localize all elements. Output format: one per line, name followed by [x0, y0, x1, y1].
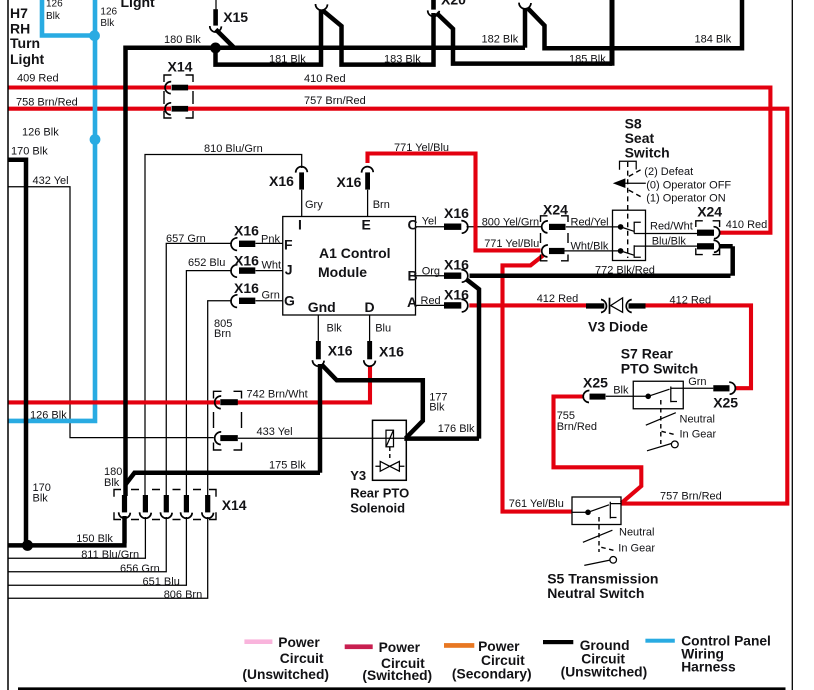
wire 412 Red left [469, 303, 586, 307]
svg-text:412 Red: 412 Red [670, 294, 712, 306]
svg-text:Rear PTO: Rear PTO [350, 486, 409, 501]
svg-text:A1 Control: A1 Control [319, 245, 391, 261]
S5 blade [588, 505, 609, 513]
wire 183 Blk with connector diagonals [323, 11, 434, 65]
S5 in-gear circle arm [610, 557, 617, 564]
diode V3 right pin arc and bar [626, 300, 631, 313]
S8 blade 2 [621, 251, 634, 255]
connector X16 pin G [231, 295, 238, 308]
svg-text:X25: X25 [713, 394, 738, 410]
legend swatch black Ground Circuit (Unswitched) [543, 640, 573, 644]
wire 150 Blk [8, 516, 127, 545]
svg-text:Red/Wht: Red/Wht [650, 220, 693, 232]
S5 in-gear dashes [601, 547, 613, 550]
svg-text:(Secondary): (Secondary) [452, 667, 532, 682]
legend swatch crimson Power Circuit (Switched) [345, 644, 373, 649]
svg-text:656 Grn: 656 Grn [120, 563, 160, 575]
connector X14 bottom pin 4 [184, 495, 189, 512]
svg-text:Power: Power [278, 635, 320, 650]
svg-text:Wht/Blk: Wht/Blk [571, 240, 609, 252]
wire 412 Red right [645, 305, 751, 388]
svg-text:175 Blk: 175 Blk [269, 460, 306, 472]
wire Gnd vertical to 175 Blk [318, 364, 323, 473]
svg-text:Power: Power [478, 639, 520, 654]
svg-text:Light: Light [10, 51, 45, 67]
legend swatch cyan Control Panel Wiring Harness [645, 639, 674, 643]
wire 185 Blk with X20 diagonal [437, 13, 613, 64]
wire 805 Brn / 806 net vertical [208, 301, 232, 496]
svg-text:811 Blu/Grn: 811 Blu/Grn [81, 549, 139, 561]
svg-text:D: D [365, 299, 375, 315]
svg-text:758 Brn/Red: 758 Brn/Red [16, 97, 78, 109]
wire 771 Yel/Blu upper [368, 154, 541, 251]
svg-text:183 Blk: 183 Blk [384, 53, 421, 65]
connector X25 left pin [583, 390, 589, 402]
wire 181 Blk U [216, 10, 322, 65]
wire Gnd pin lead [317, 315, 319, 342]
svg-text:180: 180 [104, 466, 122, 478]
svg-text:X20: X20 [441, 0, 466, 8]
connector X14 bottom pin 5 [205, 495, 210, 512]
svg-text:Org: Org [422, 265, 440, 277]
LAYER: dashed connector boxes [114, 75, 720, 520]
connector X24 right dashed box [696, 221, 720, 255]
svg-text:Harness: Harness [681, 660, 736, 675]
svg-text:X14: X14 [168, 58, 193, 74]
diode V3 cathode bar [609, 298, 611, 314]
connector X16 pin D [367, 341, 372, 359]
wire X15 diagonal [216, 30, 234, 48]
page border right [791, 0, 793, 690]
svg-text:X16: X16 [269, 173, 294, 189]
svg-text:S7 Rear: S7 Rear [621, 346, 674, 362]
wire pin A lead [416, 304, 445, 306]
svg-text:Neutral: Neutral [680, 413, 715, 425]
wire D pin lead [369, 315, 371, 342]
svg-text:Y3: Y3 [350, 468, 366, 483]
S7 in-gear dashes [662, 431, 676, 435]
svg-text:X16: X16 [444, 257, 469, 273]
junction cyan dot B [90, 134, 101, 145]
wire 757 Brn/Red [188, 109, 787, 504]
svg-text:184 Blk: 184 Blk [695, 33, 732, 45]
svg-text:657 Grn: 657 Grn [166, 233, 206, 245]
wire 742 Brn/Wht [8, 400, 220, 404]
svg-text:X16: X16 [379, 344, 404, 360]
svg-text:E: E [362, 217, 371, 233]
svg-text:Yel: Yel [422, 215, 437, 227]
wire control panel harness branch 126 Blk [42, 0, 95, 36]
S8 defeat dashed diagonal [629, 168, 644, 176]
wire 176 Blk from pin B [404, 280, 479, 439]
S7 pole dot [645, 394, 651, 400]
S8 blade 1 [621, 227, 634, 231]
connector X16 pin F [231, 238, 238, 251]
svg-text:Pnk: Pnk [261, 233, 280, 245]
wire pin G lead to module [256, 300, 283, 302]
S8 contact 1 [634, 222, 641, 233]
LAYER: component internals and symbols [283, 161, 684, 565]
svg-text:Power: Power [379, 640, 421, 655]
connector X14 top pin 1 [165, 82, 171, 94]
svg-text:X24: X24 [697, 204, 722, 220]
svg-text:410 Red: 410 Red [304, 73, 346, 85]
wire 800 Yel/Grn [467, 226, 542, 228]
svg-text:I: I [298, 217, 302, 233]
connector X14 bottom pin 1 [122, 495, 127, 512]
wire 409 Red / 410 Red [8, 85, 171, 89]
wire Red/Wht [634, 233, 697, 235]
connector X25 right pin [713, 385, 729, 391]
op-amp n/a : A1 Control Module box [283, 217, 416, 316]
svg-text:X25: X25 [583, 374, 608, 390]
svg-text:PTO Switch: PTO Switch [621, 361, 699, 377]
svg-text:Turn: Turn [10, 35, 40, 51]
wire X21 vertical [523, 9, 528, 48]
svg-text:(Unswitched): (Unswitched) [242, 667, 329, 682]
wire 755 Brn/Red [554, 397, 642, 504]
connector X14 bottom pin 3 [164, 495, 169, 512]
svg-text:X16: X16 [234, 280, 259, 296]
svg-text:In Gear: In Gear [680, 428, 717, 440]
connector X24 right pin 1 [697, 230, 714, 236]
svg-text:772 Blk/Red: 772 Blk/Red [595, 264, 655, 276]
S7 blade [648, 389, 669, 396]
wire 652 Blu / 651 net vertical [186, 271, 231, 496]
svg-text:X16: X16 [234, 223, 259, 239]
connector X16 pin A [444, 302, 461, 308]
svg-text:Brn: Brn [214, 328, 231, 340]
svg-text:Neutral: Neutral [619, 527, 654, 539]
svg-text:Blk: Blk [613, 385, 629, 397]
wire page-edge vertical node [610, 0, 615, 66]
junction 150/170 dot [22, 540, 33, 551]
legend swatch pink Power Circuit (Unswitched) [244, 639, 272, 644]
svg-text:Red/Yel: Red/Yel [571, 217, 609, 229]
svg-text:176 Blk: 176 Blk [438, 423, 475, 435]
svg-text:X15: X15 [223, 9, 248, 25]
S8 ON dashed diagonal [629, 190, 644, 198]
svg-text:433 Yel: 433 Yel [257, 426, 293, 438]
LAYER: connector pins [119, 0, 736, 518]
S5 actuator dashed [598, 517, 600, 552]
page border left [7, 0, 9, 690]
wire pin C lead [416, 226, 445, 228]
wire Blk S7 [606, 395, 648, 397]
wire 656 Grn bottom [8, 517, 166, 572]
svg-text:Blk: Blk [104, 477, 120, 489]
wire pin I lead to module [301, 190, 303, 217]
S7 actuator dashed [660, 400, 662, 444]
connector X16 pin C [444, 224, 461, 230]
S7 in-gear circle arm [671, 441, 678, 448]
svg-text:H7: H7 [10, 5, 28, 21]
connector X15 pin [215, 0, 217, 9]
connector X14 left dashed box [214, 391, 242, 450]
svg-text:(0) Operator OFF: (0) Operator OFF [646, 179, 731, 191]
svg-text:806 Brn: 806 Brn [164, 589, 203, 601]
svg-text:126: 126 [46, 0, 63, 10]
svg-text:X16: X16 [444, 287, 469, 303]
wire Grn S7 [671, 387, 714, 389]
svg-text:757 Brn/Red: 757 Brn/Red [660, 491, 722, 503]
wire pin E lead to module [367, 190, 369, 217]
svg-text:(Switched): (Switched) [362, 668, 432, 683]
wire 177 Blk [322, 365, 423, 439]
diode V3 triangle [611, 298, 623, 312]
wire 184 Blk with X21 diagonal [528, 0, 742, 48]
connector X24 left pin 2 [542, 245, 548, 257]
svg-text:409 Red: 409 Red [17, 73, 59, 85]
svg-text:X16: X16 [234, 253, 259, 269]
svg-text:X16: X16 [328, 343, 353, 359]
wire 811 Blu/Grn bottom [8, 517, 145, 558]
svg-text:432 Yel: 432 Yel [33, 175, 69, 187]
svg-text:A: A [407, 294, 417, 310]
junction X15 dot [210, 43, 221, 54]
svg-text:(Unswitched): (Unswitched) [561, 665, 648, 680]
Y3 coil [386, 430, 394, 447]
svg-text:Solenoid: Solenoid [350, 501, 405, 516]
connector X14 bottom pin 2 [143, 495, 148, 512]
wire Blu/Blk [634, 245, 697, 247]
svg-text:C: C [408, 217, 418, 233]
svg-text:V3 Diode: V3 Diode [588, 319, 648, 335]
wire Wht/Blk [565, 250, 619, 252]
connector X14 left pin 2 [215, 432, 222, 445]
wire 810 Blu/Grn [145, 155, 302, 497]
svg-text:810 Blu/Grn: 810 Blu/Grn [204, 143, 263, 155]
svg-text:Blk: Blk [33, 493, 49, 505]
svg-text:761 Yel/Blu: 761 Yel/Blu [509, 498, 564, 510]
svg-text:B: B [408, 268, 418, 284]
S8 contact 2 [634, 245, 641, 257]
connector X16 pin I [296, 167, 308, 173]
LAYER: legend [242, 634, 770, 683]
svg-text:X16: X16 [337, 174, 362, 190]
legend swatch orange Power Circuit (Secondary) [444, 643, 474, 648]
svg-text:Brn/Red: Brn/Red [557, 421, 597, 433]
svg-text:Grn: Grn [262, 289, 280, 301]
wire 651 Blu bottom [8, 517, 186, 585]
svg-text:(1) Operator ON: (1) Operator ON [646, 192, 726, 204]
svg-text:410 Red: 410 Red [726, 219, 768, 231]
svg-text:742 Brn/Wht: 742 Brn/Wht [247, 388, 308, 400]
svg-text:150 Blk: 150 Blk [76, 533, 113, 545]
S5 contact [610, 502, 621, 519]
svg-text:Blu: Blu [375, 323, 391, 335]
svg-text:170 Blk: 170 Blk [11, 146, 48, 158]
svg-text:651 Blu: 651 Blu [143, 576, 180, 588]
wire pin F lead to module [256, 242, 283, 244]
svg-text:Gry: Gry [305, 199, 323, 211]
svg-text:185 Blk: 185 Blk [569, 53, 606, 65]
solenoid Y3 box [373, 420, 407, 480]
S8 defeat bracket [620, 161, 637, 170]
connector X16 pin J [231, 265, 238, 278]
S5 pole dot [585, 510, 591, 516]
wire 806 Brn bottom [8, 517, 208, 598]
S5 neutral diagonal [583, 530, 613, 542]
connector X14 top dashed box [164, 75, 193, 118]
LAYER: thick black wires [8, 0, 742, 551]
svg-text:652 Blu: 652 Blu [188, 257, 225, 269]
connector X16 pin E [362, 167, 374, 173]
connector X24 left pin 1 [542, 221, 548, 233]
wire pin J lead to module [256, 270, 283, 272]
svg-text:181 Blk: 181 Blk [269, 53, 306, 65]
junction cyan dot A [89, 30, 100, 41]
transmission switch S5 box [572, 497, 621, 525]
S8 operator arrow [621, 182, 646, 184]
connector X20 pin [431, 0, 436, 10]
svg-text:182 Blk: 182 Blk [482, 34, 519, 46]
svg-text:Blk: Blk [46, 11, 61, 22]
svg-text:771 Yel/Blu: 771 Yel/Blu [394, 142, 449, 154]
svg-text:X16: X16 [444, 205, 469, 221]
LAYER: red wires [8, 88, 787, 512]
wire 433 Yel segment to Y3 [238, 437, 404, 439]
svg-text:Wht: Wht [262, 259, 282, 271]
svg-text:Blk: Blk [100, 18, 115, 29]
seat switch S8 box [613, 210, 646, 260]
svg-text:771 Yel/Blu: 771 Yel/Blu [484, 238, 539, 250]
svg-text:Gnd: Gnd [308, 299, 336, 315]
svg-text:X14: X14 [222, 497, 247, 513]
wire 175 Blk branch [126, 473, 321, 485]
rear PTO switch S7 box [633, 381, 683, 409]
wire 758 Brn/Red [8, 107, 171, 111]
svg-text:X24: X24 [543, 202, 568, 218]
svg-text:In Gear: In Gear [618, 543, 655, 555]
wire pin B lead [416, 275, 445, 277]
svg-text:Blk: Blk [429, 402, 445, 414]
connector X24 right pin 2 [697, 243, 714, 249]
svg-text:126 Blk: 126 Blk [30, 410, 67, 422]
connector X16 pin B [444, 273, 461, 279]
LAYER: thin wires [8, 155, 713, 599]
connector X21 pin (cut) [519, 3, 531, 9]
svg-text:180 Blk: 180 Blk [164, 34, 201, 46]
svg-text:Brn: Brn [373, 199, 390, 211]
wire 772 Blk/Red [470, 246, 733, 275]
S7 contact [671, 387, 677, 403]
svg-text:F: F [284, 237, 293, 253]
connector top pin (cut) at x321 [315, 4, 327, 10]
svg-text:Grn: Grn [688, 376, 706, 388]
wire Red/Yel [566, 226, 618, 228]
svg-text:G: G [284, 293, 295, 309]
svg-text:(2) Defeat: (2) Defeat [644, 166, 693, 178]
S8 actuator dashed line [627, 162, 629, 258]
wire 432/433 Yel left segment [8, 187, 214, 438]
svg-text:Light: Light [121, 0, 156, 10]
S8 pole 2 dot [618, 248, 624, 254]
svg-text:Circuit: Circuit [280, 651, 324, 666]
svg-text:Blu/Blk: Blu/Blk [652, 235, 687, 247]
connector X14 top pin 2 [165, 103, 171, 115]
svg-text:Blk: Blk [327, 323, 343, 335]
S7 neutral diagonal [646, 413, 676, 426]
svg-text:126: 126 [100, 7, 117, 18]
svg-text:J: J [285, 262, 293, 278]
wire 771 Yel/Blu / 761 Yel/Blu lower [503, 256, 572, 512]
wire 170 Blk [8, 160, 26, 546]
Y3 actuator dashed [389, 447, 391, 461]
connector X14 bottom dashed box [114, 490, 216, 520]
svg-text:800 Yel/Grn: 800 Yel/Grn [482, 217, 540, 229]
connector X24 left dashed box [541, 216, 569, 261]
svg-text:757 Brn/Red: 757 Brn/Red [304, 95, 366, 107]
wire control panel harness main 126 Blk [8, 0, 95, 421]
svg-text:Switch: Switch [625, 145, 670, 161]
svg-text:Module: Module [318, 264, 367, 280]
connector X14 left pin 1 [215, 396, 222, 409]
svg-text:126 Blk: 126 Blk [22, 126, 59, 138]
connector X16 pin Gnd [316, 341, 321, 359]
wire 180/182 Blk with vertical to X14 [126, 46, 526, 497]
svg-text:Neutral Switch: Neutral Switch [547, 585, 644, 601]
svg-text:Red: Red [421, 295, 441, 307]
Y3 valve bowtie [380, 461, 390, 471]
diode V3 left pin bar and arc [586, 303, 604, 308]
S8 pole 1 dot [618, 224, 624, 230]
wire 657 Grn / 656 net vertical [166, 243, 232, 496]
page border bottom [18, 687, 786, 690]
wire S5 pole lead [572, 511, 588, 513]
svg-text:412 Red: 412 Red [537, 293, 579, 305]
